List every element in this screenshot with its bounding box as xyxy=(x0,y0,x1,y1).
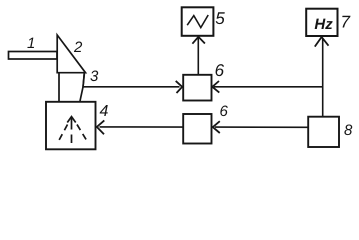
block 5 (oscilloscope) xyxy=(182,7,214,36)
block 6 upper (amplifier) xyxy=(183,75,211,101)
arrowhead into block 6 upper right xyxy=(212,81,219,93)
block 4 (transducer) xyxy=(46,102,96,150)
label 8 xyxy=(344,125,352,136)
wire node3 to block 6 upper xyxy=(83,86,180,88)
Hz text xyxy=(315,19,326,29)
wire block 8 to block 6 lower xyxy=(215,126,308,128)
transducer emission symbol inside block 4 xyxy=(58,117,89,143)
block 7 (frequency meter) xyxy=(306,9,337,36)
label 6 lower xyxy=(220,106,227,117)
block 8 (generator) xyxy=(308,117,339,147)
label 5 xyxy=(216,12,225,24)
wire vertical bus block 8 to block 7 xyxy=(322,38,324,117)
prism 2 (concentrator horn) xyxy=(57,35,85,73)
label 4 xyxy=(100,105,108,116)
wire block 6 lower to block 4 xyxy=(100,126,184,128)
label 6 upper xyxy=(216,64,225,76)
block 6 lower (amplifier) xyxy=(183,114,211,144)
neck block under prism xyxy=(59,73,84,101)
arrowhead into block 7 xyxy=(315,37,329,47)
label 1 xyxy=(27,38,34,48)
waveform symbol in block 5 xyxy=(187,15,208,28)
wire vertical node3 junction xyxy=(83,73,84,87)
label 3 xyxy=(90,71,98,82)
arrowhead into block 6 lower right xyxy=(213,121,220,133)
label 2 xyxy=(74,42,82,52)
arrowhead into block 4 xyxy=(97,120,105,134)
arrowhead into block 6 upper left xyxy=(176,81,183,93)
arrowhead into block 5 xyxy=(192,37,205,44)
label 7 xyxy=(342,16,350,28)
rod 1 (input rod / waveguide) xyxy=(9,52,58,60)
wire block 6 upper to block 5 xyxy=(197,38,199,75)
wire block6 upper to vertical bus xyxy=(214,86,323,88)
